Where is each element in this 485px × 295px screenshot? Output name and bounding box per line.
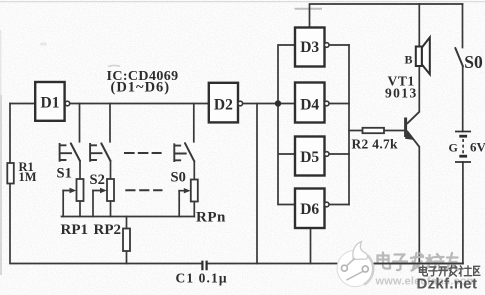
svg-text:D5: D5 — [300, 149, 319, 166]
svg-text:S1: S1 — [57, 166, 72, 182]
svg-text:D3: D3 — [300, 39, 319, 56]
svg-text:RPn: RPn — [196, 210, 226, 226]
svg-text:R2 4.7k: R2 4.7k — [352, 137, 399, 152]
svg-text:D4: D4 — [300, 97, 319, 114]
svg-text:S0: S0 — [171, 170, 186, 186]
svg-text:Dzkf.net: Dzkf.net — [417, 276, 478, 293]
svg-text:9013: 9013 — [385, 86, 418, 101]
svg-text:D6: D6 — [300, 201, 319, 218]
svg-text:C1 0.1μ: C1 0.1μ — [176, 271, 228, 286]
svg-text:6V: 6V — [470, 140, 485, 155]
svg-text:S0: S0 — [464, 52, 483, 72]
svg-text:(D1~D6): (D1~D6) — [111, 80, 171, 96]
svg-text:B: B — [405, 53, 413, 67]
svg-text:G: G — [449, 141, 458, 155]
svg-text:S2: S2 — [90, 172, 105, 188]
svg-text:D1: D1 — [41, 95, 60, 112]
svg-text:1M: 1M — [19, 170, 37, 184]
svg-text:RP2: RP2 — [94, 222, 122, 238]
svg-text:RP1: RP1 — [61, 222, 89, 238]
svg-text:D2: D2 — [214, 97, 233, 114]
